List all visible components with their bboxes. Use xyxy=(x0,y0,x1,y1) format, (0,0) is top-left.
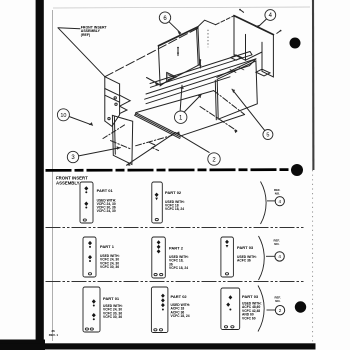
hat profile b xyxy=(168,75,174,80)
hat base line xyxy=(160,73,167,87)
SE bar mid xyxy=(135,114,180,137)
right page edge upper xyxy=(312,0,314,170)
svg-text:NO.: NO. xyxy=(274,242,279,246)
part strip R2C1 xyxy=(83,237,96,277)
right channel lower fold xyxy=(246,52,263,60)
brace row 2 xyxy=(259,236,265,280)
left black margin bar xyxy=(36,0,44,350)
rail B hatch 1 xyxy=(230,70,236,73)
part strip R1C1 xyxy=(80,182,93,223)
phantom down-right with arrow xyxy=(200,107,238,132)
svg-text:REV. 1: REV. 1 xyxy=(49,333,59,337)
svg-text:VCFC 18, 24: VCFC 18, 24 xyxy=(165,207,184,211)
hat profile a xyxy=(167,73,176,82)
part strip R2C2 xyxy=(152,237,166,278)
phantom zigzag bottom xyxy=(149,142,158,150)
svg-text:10: 10 xyxy=(60,113,66,119)
ref label row 2 xyxy=(274,238,280,246)
ref dash row 3 xyxy=(267,309,276,311)
part strip R1C2 xyxy=(152,182,163,223)
phantom left low xyxy=(111,141,131,149)
callout circle 5 xyxy=(263,130,273,140)
rail B lower line xyxy=(145,66,250,100)
leader c5 xyxy=(232,89,265,130)
callout circle 2 xyxy=(208,153,220,165)
svg-text:ACFC 36: ACFC 36 xyxy=(237,259,251,263)
callout circle 3 xyxy=(67,151,78,162)
svg-text:VCFC 30, 36: VCFC 30, 36 xyxy=(103,315,122,319)
part strip R3C3 xyxy=(221,288,240,330)
ref circle row 3 xyxy=(275,306,284,315)
filled arrowheads xyxy=(89,9,282,166)
part strip R2C3 xyxy=(221,237,234,277)
small arrow near back panel base xyxy=(147,78,159,85)
label leader diagonal to bracket apex xyxy=(58,28,105,77)
heavy dashed separator xyxy=(46,168,292,171)
callout circle 1 xyxy=(175,111,187,123)
bracket hole 2 xyxy=(115,103,117,105)
bracket flange triangle xyxy=(120,95,131,106)
screw mid 2 xyxy=(199,60,201,68)
rail B upper line xyxy=(146,59,256,94)
svg-text:NO.: NO. xyxy=(275,299,280,303)
svg-text:ASSEMBLY: ASSEMBLY xyxy=(56,180,80,185)
brace row 1 xyxy=(261,182,267,225)
svg-text:PART 01: PART 01 xyxy=(97,188,114,193)
P5 double left edge xyxy=(215,80,216,120)
svg-text:4: 4 xyxy=(278,254,281,259)
page number xyxy=(49,329,59,337)
rail A upper line xyxy=(150,52,250,84)
left bracket right edge xyxy=(119,84,121,115)
leader c2 up xyxy=(176,133,209,153)
phantom dash-dot bottom middle xyxy=(136,135,172,145)
right page edge lower dotted xyxy=(312,170,314,342)
bottom black bar xyxy=(0,343,316,349)
front insert panel P5 xyxy=(217,61,257,119)
svg-text:PART 01: PART 01 xyxy=(103,296,120,301)
ref circle row 1 xyxy=(275,197,284,206)
leader c2 elbow xyxy=(127,132,176,165)
phantom through P3 xyxy=(103,124,126,139)
left bracket left edge xyxy=(104,77,106,121)
back panel inner fold xyxy=(197,28,199,65)
ref dash row 2 xyxy=(266,255,275,257)
right channel U outline xyxy=(234,16,273,77)
leader c1 right xyxy=(185,95,202,112)
rail B tip xyxy=(250,59,257,66)
callout circle 10 xyxy=(57,109,69,121)
row separator 1 xyxy=(46,227,306,229)
channel foot left xyxy=(231,55,242,60)
svg-text:PART 1: PART 1 xyxy=(100,244,115,249)
SE bar lower xyxy=(135,115,180,138)
rail B hatch 2 xyxy=(238,67,244,70)
floor panel N-E edge dashdot xyxy=(214,91,245,115)
top frame line xyxy=(53,7,310,8)
floor panel E-S edge xyxy=(181,115,245,136)
margin dot 3 xyxy=(295,301,306,312)
left bracket top fold xyxy=(105,77,120,84)
svg-text:PART 02: PART 02 xyxy=(171,294,188,299)
channel foot right xyxy=(256,69,270,76)
screw right of channel xyxy=(277,31,281,34)
ref dash row 1 xyxy=(267,200,275,202)
leader circle 4 xyxy=(258,19,267,28)
svg-text:PART 03: PART 03 xyxy=(237,245,254,250)
back panel P6 outline xyxy=(158,27,199,85)
screw mid 1 xyxy=(177,48,179,56)
svg-text:NO.: NO. xyxy=(275,192,280,196)
bracket hole 1 xyxy=(114,97,116,99)
svg-text:VCFC 60: VCFC 60 xyxy=(242,316,256,320)
bottom-left black patch xyxy=(0,340,45,350)
left frame line xyxy=(52,10,54,341)
part strip R3C2 xyxy=(151,287,168,333)
rail A right cap xyxy=(250,52,252,55)
ref label row 1 xyxy=(274,188,280,196)
callout circle 4 xyxy=(265,10,276,21)
row separator 2 xyxy=(46,281,306,283)
bracket fold line b xyxy=(105,95,120,102)
bracket flange triangle 2 xyxy=(120,106,127,113)
SE bar caps xyxy=(135,113,136,116)
right channel heavy top edge xyxy=(234,16,273,35)
svg-text:VCFC 24, 30: VCFC 24, 30 xyxy=(97,209,116,213)
left bracket bottom xyxy=(105,115,120,127)
margin dot 1 xyxy=(290,38,301,49)
svg-text:VCFC 18, 24: VCFC 18, 24 xyxy=(171,314,190,318)
leader c1 left xyxy=(180,85,182,110)
floor panel W-N edge xyxy=(136,91,214,113)
svg-text:PART 03: PART 03 xyxy=(242,294,259,299)
svg-text:VCFC 18, 24: VCFC 18, 24 xyxy=(169,266,188,270)
ref circle row 2 xyxy=(275,252,284,261)
rail A lower line xyxy=(150,55,252,88)
SE bar upper xyxy=(136,113,181,136)
bracket hole 3 xyxy=(108,117,110,119)
back panel P6 top heavy edge xyxy=(158,27,198,46)
svg-text:VCFC 30, 36: VCFC 30, 36 xyxy=(100,265,119,269)
margin dot 2 xyxy=(291,164,303,176)
front panel P3 xyxy=(112,115,132,164)
phantom zigzag top right xyxy=(198,20,215,26)
callout circle 6 xyxy=(159,12,170,23)
rail C line xyxy=(146,77,230,104)
assembly ref label xyxy=(81,25,108,37)
leader circle 6 xyxy=(169,22,181,33)
section title xyxy=(56,175,88,185)
svg-text:(REF): (REF) xyxy=(81,33,90,37)
phantom dash to channel apex xyxy=(216,16,234,25)
bracket fold line a xyxy=(105,89,120,96)
hidden dotted edge below zigzag xyxy=(207,30,209,47)
label leader horizontal xyxy=(58,27,80,30)
svg-text:PART 2: PART 2 xyxy=(169,246,184,251)
P5 double top edge xyxy=(217,59,256,77)
ref label row 3 xyxy=(275,295,281,303)
screw above right channel xyxy=(240,10,244,13)
front panel left fold xyxy=(113,117,116,155)
svg-text:2: 2 xyxy=(279,308,282,313)
leader c3 xyxy=(79,148,121,156)
leader c10 xyxy=(69,117,92,126)
part strip R3C1 xyxy=(83,287,100,332)
svg-text:5: 5 xyxy=(266,133,269,139)
svg-text:4: 4 xyxy=(279,199,282,204)
svg-text:PART 02: PART 02 xyxy=(165,190,182,195)
brace row 3 xyxy=(258,286,264,332)
phantom edge bracket apex to back panel corner xyxy=(105,27,199,76)
right channel inner web xyxy=(234,34,246,60)
